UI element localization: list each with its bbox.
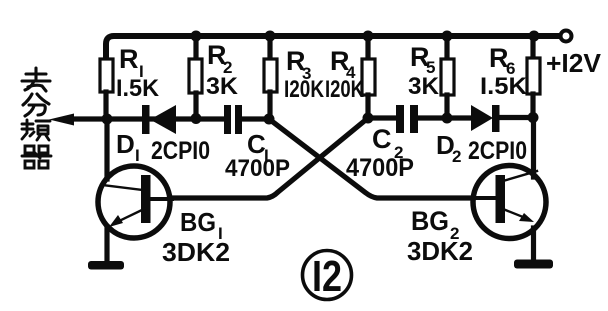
svg-text:BG: BG	[411, 206, 449, 236]
node dot R4 bottom	[363, 113, 374, 124]
wire BG2 collector (shared with R6 lead)	[531, 118, 536, 178]
label 去	[22, 68, 50, 91]
label 频	[22, 120, 50, 140]
terminal +12V	[561, 31, 572, 42]
label C1 4700P	[225, 129, 290, 182]
svg-text:C: C	[372, 124, 392, 154]
svg-text:I: I	[135, 146, 140, 165]
label R4 120K	[325, 46, 365, 103]
label R6 1.5K	[480, 43, 528, 100]
label R2 3K	[206, 40, 239, 100]
label BG2 3DK2	[407, 206, 473, 266]
resistor R1	[100, 59, 113, 119]
svg-text:I.5K: I.5K	[480, 73, 528, 100]
wire row left	[107, 116, 226, 121]
svg-text:BG: BG	[180, 207, 216, 237]
node dot R5 top	[442, 31, 453, 42]
svg-text:3K: 3K	[408, 73, 440, 100]
capacitor C2	[396, 105, 418, 133]
svg-text:2: 2	[452, 147, 461, 166]
svg-text:3K: 3K	[206, 73, 239, 100]
label C2 4700P	[346, 124, 414, 182]
wire D2 to collector node	[499, 115, 533, 120]
figure number 12	[303, 251, 352, 302]
node dot R6 top	[529, 31, 540, 42]
node dot R3 top	[265, 31, 276, 42]
node dot R2 top	[191, 31, 202, 42]
transistor BG1	[98, 166, 172, 238]
svg-text:2CPI0: 2CPI0	[151, 137, 210, 165]
wire cross-couple left node to BG2 base	[269, 119, 500, 198]
label R5 3K	[408, 42, 440, 100]
ground BG2	[514, 260, 553, 269]
svg-text:3DK2: 3DK2	[407, 236, 473, 266]
node dot output	[102, 114, 113, 125]
diode D1	[142, 105, 176, 134]
transistor BG2	[473, 166, 546, 239]
wire R4 node to C2	[368, 115, 398, 120]
node dot D1-R2	[191, 113, 202, 124]
label D1 2CP10	[116, 129, 210, 165]
svg-text:3DK2: 3DK2	[162, 237, 230, 267]
svg-text:+I2V: +I2V	[546, 48, 602, 78]
resistor R3	[264, 36, 277, 119]
node dot R3 bottom	[264, 114, 275, 125]
node dot R4 top	[363, 31, 374, 42]
svg-text:I20K: I20K	[284, 76, 325, 103]
label 器	[22, 146, 51, 168]
label R1 1.5K	[116, 44, 160, 102]
label D2 2CP10	[436, 130, 527, 166]
label R3 120K	[284, 46, 325, 103]
node dot R5 bottom	[442, 113, 453, 124]
svg-text:2CPI0: 2CPI0	[468, 137, 527, 165]
wire C1 to R3 node	[240, 116, 270, 121]
svg-text:I2: I2	[312, 252, 342, 301]
svg-text:4700P: 4700P	[225, 155, 290, 182]
wire BG1 emitter to ground	[104, 227, 109, 262]
output arrow to divider	[49, 114, 107, 126]
svg-text:I20K: I20K	[325, 76, 365, 103]
ground BG1	[88, 261, 124, 270]
label BG1 3DK2	[162, 207, 230, 267]
svg-text:4700P: 4700P	[346, 154, 414, 182]
resistor R5	[441, 36, 454, 118]
wire cross-couple right node to BG1 base	[141, 118, 368, 198]
resistor R6	[527, 36, 540, 117]
diode D2	[471, 105, 500, 132]
wire C2 to R5 node	[416, 115, 473, 120]
capacitor C1	[224, 105, 242, 134]
svg-text:I.5K: I.5K	[116, 75, 160, 102]
resistor R4	[362, 36, 375, 118]
wire top supply rail	[106, 36, 558, 59]
wire BG2 emitter to ground	[531, 228, 536, 261]
label 分	[23, 94, 49, 116]
resistor R2	[189, 36, 202, 118]
svg-text:R: R	[119, 44, 139, 74]
svg-text:D: D	[116, 129, 135, 159]
node dot D2-R6	[528, 112, 539, 123]
wire BG1 collector	[104, 119, 109, 179]
